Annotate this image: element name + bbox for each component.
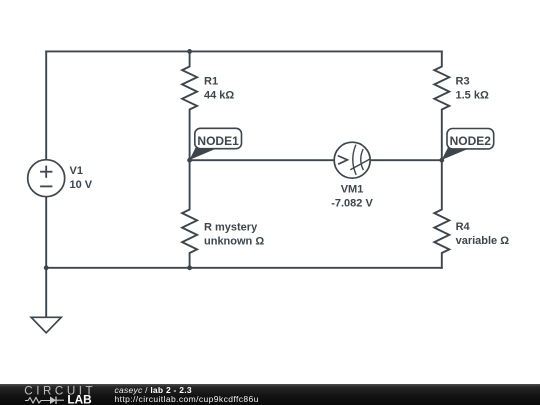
svg-text:unknown Ω: unknown Ω [204,236,264,248]
svg-text:1.5 kΩ: 1.5 kΩ [456,90,489,102]
svg-text:V1: V1 [70,165,83,177]
svg-text:variable Ω: variable Ω [456,235,510,247]
svg-text:R mystery: R mystery [204,221,258,233]
svg-text:LAB: LAB [67,393,91,404]
svg-text:VM1: VM1 [341,183,364,195]
svg-text:R4: R4 [456,221,471,233]
svg-text:44 kΩ: 44 kΩ [204,90,234,102]
svg-text:10 V: 10 V [70,179,93,191]
svg-text:R1: R1 [204,76,218,88]
svg-text:-7.082 V: -7.082 V [331,198,373,210]
svg-text:R3: R3 [456,76,470,88]
svg-text:NODE1: NODE1 [197,134,239,148]
svg-text:NODE2: NODE2 [450,134,492,148]
